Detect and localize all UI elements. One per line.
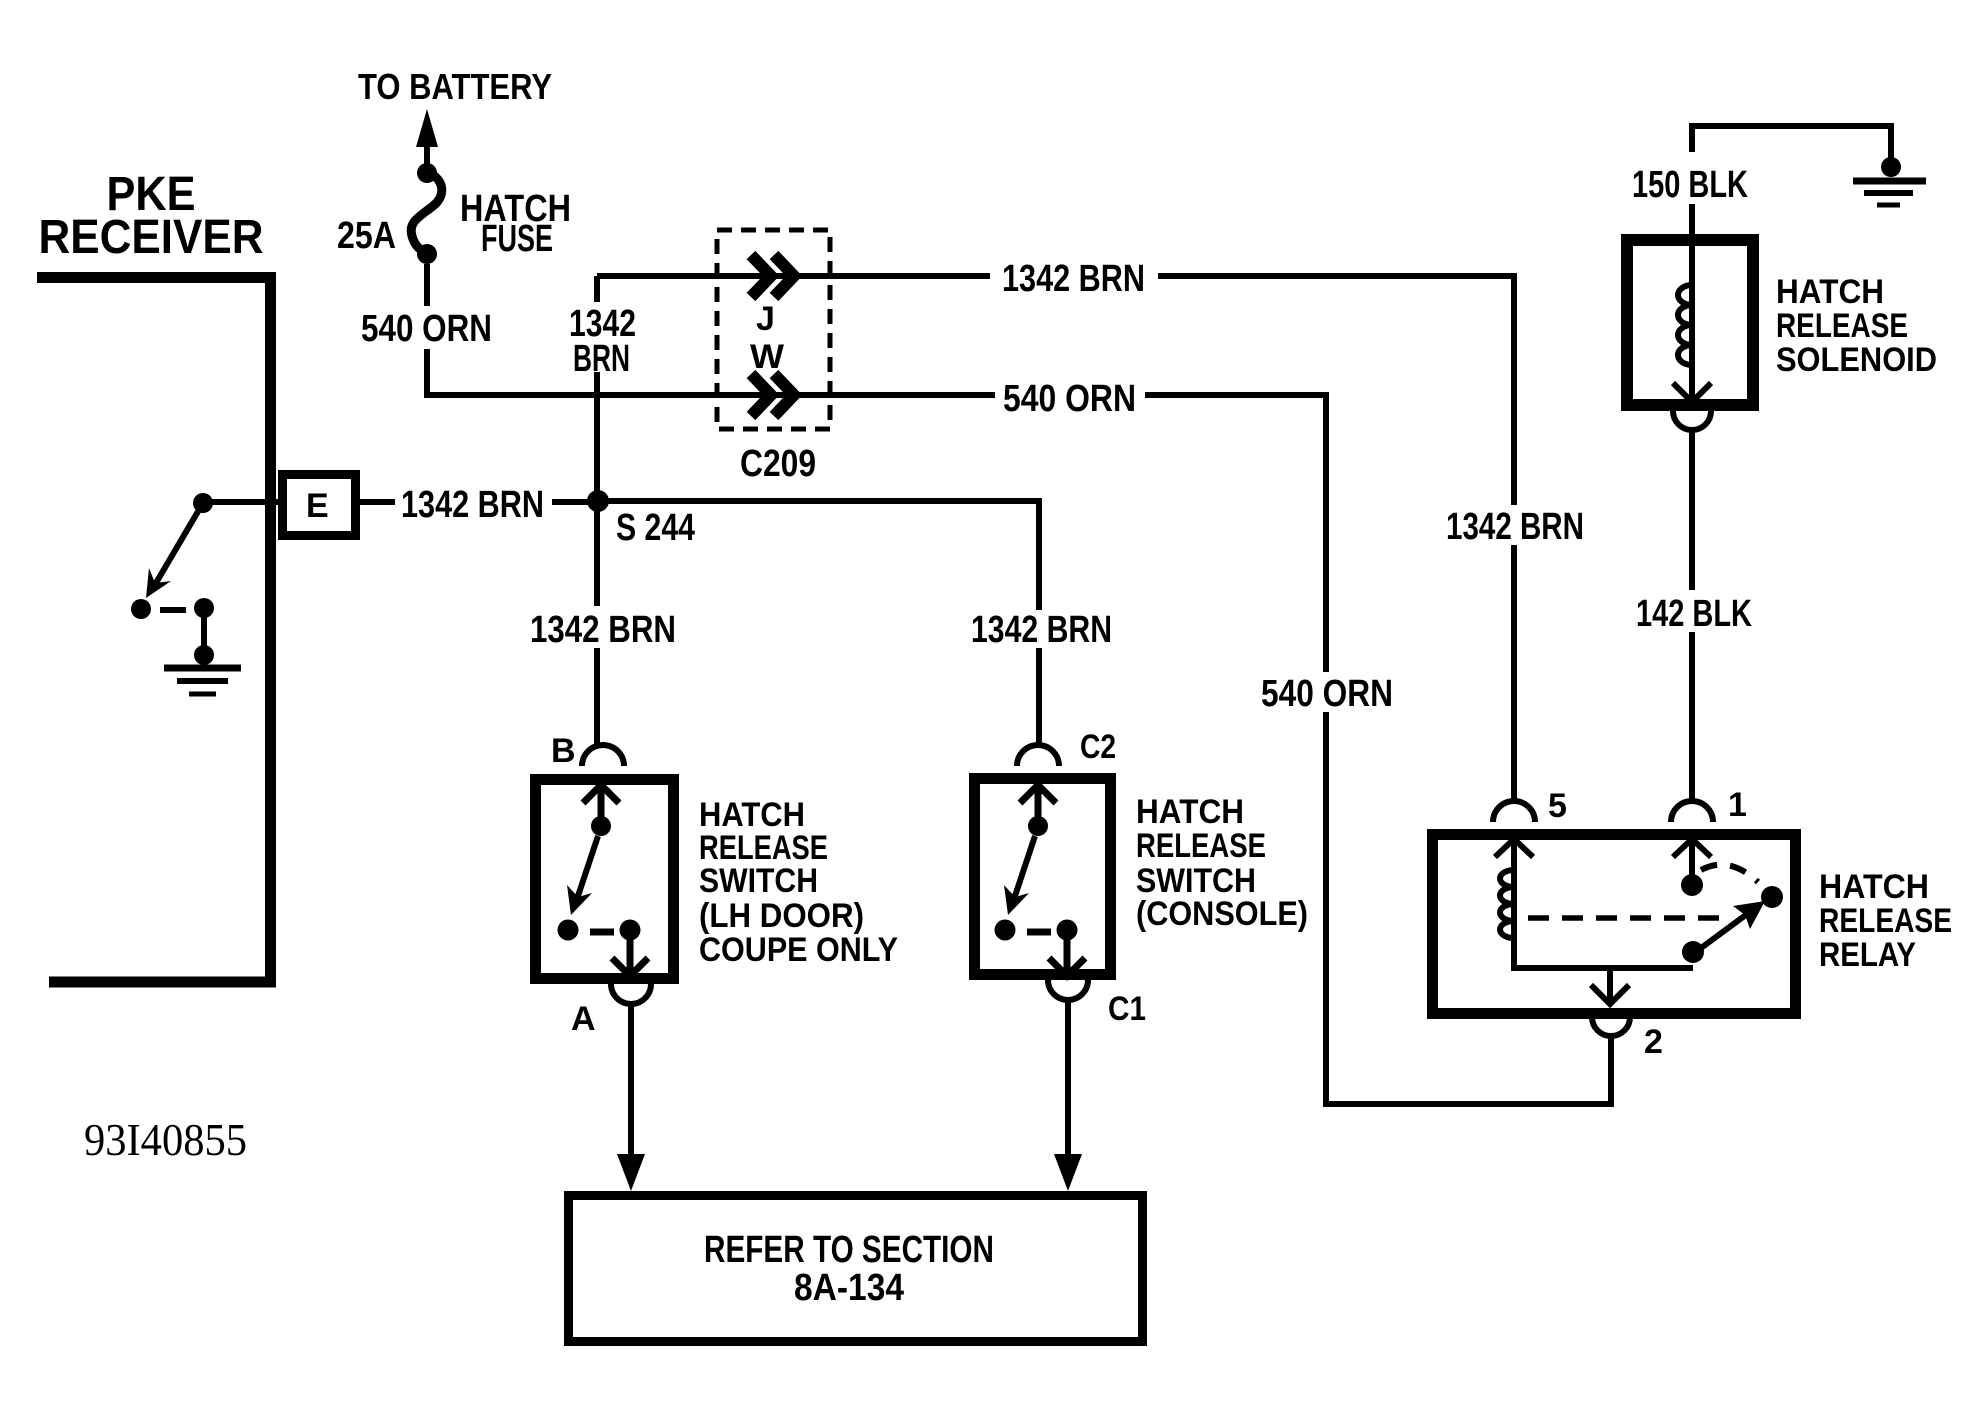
- hatch release relay box: [1433, 835, 1796, 1014]
- wire solenoid to ground: [1692, 126, 1891, 158]
- wire 142 BLK to relay pin 1: [1689, 632, 1695, 803]
- ground junction dot: [194, 645, 214, 665]
- svg-text:COUPE ONLY: COUPE ONLY: [699, 931, 898, 969]
- svg-text:RELAY: RELAY: [1819, 936, 1916, 974]
- switch input arrow: [583, 785, 619, 818]
- pin 1 arc: [1671, 801, 1713, 822]
- label HATCH RELEASE SOLENOID: [1776, 273, 1937, 379]
- wire label to solenoid: [1689, 204, 1695, 240]
- fuse element (wavy): [411, 172, 442, 254]
- relay fixed contact dot: [1681, 874, 1703, 896]
- svg-text:E: E: [306, 487, 329, 525]
- wire from E label to S244: [360, 499, 590, 505]
- label 1342 BRN (two lines): [569, 303, 636, 380]
- terminal J chevron: [751, 255, 794, 297]
- svg-text:RELEASE: RELEASE: [1776, 307, 1908, 345]
- PKE receiver outline: [37, 278, 271, 983]
- svg-text:RELEASE: RELEASE: [1819, 902, 1952, 940]
- switch output contact dot: [1057, 920, 1078, 941]
- switch upper contact dot: [591, 816, 611, 836]
- pin 5 arc: [1493, 801, 1535, 822]
- switch input arrow: [1020, 785, 1056, 818]
- svg-text:1342 BRN: 1342 BRN: [1002, 258, 1145, 300]
- svg-text:SWITCH: SWITCH: [699, 862, 818, 900]
- wire 142 BLK: [1689, 430, 1695, 590]
- svg-text:HATCH: HATCH: [1776, 273, 1884, 311]
- svg-text:1342 BRN: 1342 BRN: [971, 609, 1112, 651]
- output arrow down: [612, 930, 648, 976]
- dash between switch contacts: [160, 607, 186, 613]
- label HATCH RELEASE RELAY: [1819, 868, 1952, 974]
- svg-text:SOLENOID: SOLENOID: [1776, 341, 1937, 379]
- refer to section box: [569, 1196, 1143, 1342]
- dashed coupling line: [1528, 915, 1724, 921]
- wire S244 right to console branch: [598, 501, 1039, 610]
- hatch release switch (console) box: [975, 779, 1111, 975]
- wire down through S244: [594, 372, 600, 606]
- pin A arc: [611, 984, 651, 1004]
- hatch release switch (LH door) box: [536, 780, 674, 979]
- switch arm with arrow: [1004, 836, 1035, 915]
- svg-text:1342 BRN: 1342 BRN: [401, 484, 544, 526]
- svg-text:1342 BRN: 1342 BRN: [1446, 506, 1584, 548]
- splice S244 junction dot: [587, 490, 609, 512]
- relay NO contact dot: [1761, 886, 1783, 908]
- svg-text:RELEASE: RELEASE: [1136, 827, 1266, 865]
- switch arm with arrow: [567, 836, 598, 915]
- switch upper contact dot: [1028, 816, 1048, 836]
- svg-text:S 244: S 244: [616, 507, 695, 549]
- svg-text:HATCH: HATCH: [1136, 793, 1244, 831]
- svg-text:2: 2: [1644, 1023, 1663, 1061]
- wire to ground dot: [201, 608, 207, 652]
- wire 1342 BRN drop from top corner: [594, 276, 600, 302]
- label REFER TO SECTION 8A-134: [704, 1229, 994, 1309]
- svg-text:5: 5: [1548, 787, 1567, 825]
- PKE switch ground-side contact dot: [194, 598, 214, 618]
- svg-text:C2: C2: [1080, 728, 1116, 766]
- pin C1 arc: [1048, 980, 1088, 1000]
- dash between contacts: [590, 929, 614, 936]
- wire 540 ORN: label to corner, down to relay feed: [1145, 395, 1326, 672]
- label HATCH FUSE: [460, 188, 571, 260]
- switch output contact dot: [620, 920, 641, 941]
- wire 1342 BRN: down to relay pin 5: [1511, 545, 1517, 803]
- svg-text:J: J: [756, 300, 775, 338]
- output arrow down: [1049, 930, 1085, 976]
- relay common contact dot: [1682, 941, 1704, 963]
- svg-text:C1: C1: [1108, 990, 1146, 1028]
- svg-text:150 BLK: 150 BLK: [1632, 164, 1748, 206]
- arrow to battery: [416, 109, 438, 173]
- svg-text:REFER TO SECTION: REFER TO SECTION: [704, 1229, 994, 1271]
- terminal W chevron: [751, 374, 794, 416]
- svg-text:93I40855: 93I40855: [84, 1114, 247, 1165]
- connector E box: [283, 475, 356, 536]
- label HATCH RELEASE SWITCH (CONSOLE): [1136, 793, 1308, 933]
- wire 540 ORN: down, right to relay pin 2: [1326, 712, 1611, 1104]
- dash between contacts: [1027, 929, 1051, 936]
- ground (solenoid): [1853, 181, 1926, 205]
- switch lower-left contact dot: [558, 920, 579, 941]
- relay armature arm: [1701, 901, 1765, 948]
- wire 1342 BRN: label to relay pin 5 drop: [1158, 276, 1514, 505]
- svg-text:BRN: BRN: [573, 338, 630, 380]
- fuse bottom terminal dot: [417, 244, 437, 264]
- pin B arc: [582, 745, 624, 766]
- pin 2 arc: [1592, 1017, 1630, 1036]
- solenoid coil: [1673, 246, 1711, 402]
- svg-text:FUSE: FUSE: [481, 218, 553, 260]
- svg-text:1342 BRN: 1342 BRN: [530, 609, 676, 651]
- relay switch feed arrow: [1673, 839, 1711, 876]
- wire from switch contact to E box: [208, 499, 282, 505]
- ground (PKE receiver): [164, 668, 241, 694]
- PKE switch arm: [146, 503, 203, 598]
- svg-text:142 BLK: 142 BLK: [1636, 593, 1752, 635]
- connector C209 dashed box: [717, 230, 830, 429]
- svg-text:A: A: [571, 1000, 596, 1038]
- PKE switch lower-left contact dot: [131, 599, 151, 619]
- wire 540 ORN: fuse down and right to C209: [424, 264, 430, 306]
- switch lower-left contact dot: [995, 920, 1016, 941]
- wire down to C2: [1036, 648, 1042, 746]
- svg-text:25A: 25A: [337, 215, 396, 257]
- svg-text:HATCH: HATCH: [1819, 868, 1929, 906]
- fuse top terminal dot: [417, 163, 437, 183]
- wire 1342 BRN: from junction corner through C209: [597, 273, 990, 279]
- svg-text:B: B: [551, 732, 576, 770]
- hatch release solenoid box: [1627, 240, 1753, 405]
- PKE switch contact dot: [193, 493, 213, 513]
- wire down to pin B: [594, 648, 600, 746]
- relay coil: [1500, 870, 1693, 968]
- dashed motion arc: [1701, 865, 1758, 882]
- svg-text:RECEIVER: RECEIVER: [39, 211, 264, 264]
- relay coil branch arrow: [1495, 839, 1533, 870]
- relay output arrow down: [1591, 968, 1629, 1004]
- wire A to section box: [617, 1004, 645, 1191]
- svg-text:1: 1: [1728, 786, 1747, 824]
- svg-text:540 ORN: 540 ORN: [1003, 378, 1136, 420]
- svg-text:TO BATTERY: TO BATTERY: [358, 66, 552, 107]
- svg-text:(LH DOOR): (LH DOOR): [699, 897, 864, 935]
- pin C2 arc: [1017, 745, 1059, 766]
- svg-text:(CONSOLE): (CONSOLE): [1136, 895, 1308, 933]
- svg-text:8A-134: 8A-134: [794, 1267, 904, 1309]
- svg-text:540 ORN: 540 ORN: [361, 308, 492, 350]
- label HATCH RELEASE SWITCH (LH DOOR) COUPE ONLY: [699, 796, 898, 969]
- solenoid pin arc: [1673, 411, 1711, 430]
- svg-text:C209: C209: [740, 443, 816, 485]
- svg-text:540 ORN: 540 ORN: [1261, 673, 1393, 715]
- ground dot: [1881, 157, 1901, 177]
- wire C1 to section box: [1054, 1000, 1082, 1191]
- label PKE RECEIVER: [39, 168, 264, 264]
